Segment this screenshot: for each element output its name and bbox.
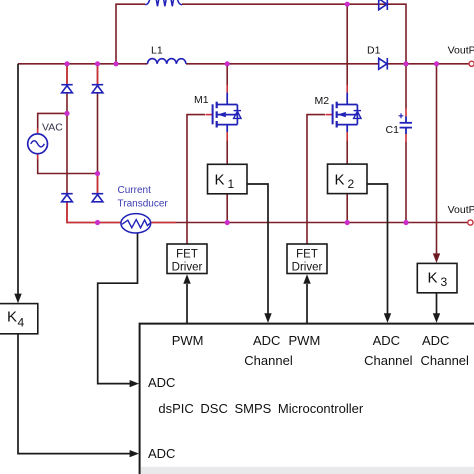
svg-text:VoutPFC-: VoutPFC- <box>448 204 474 216</box>
svg-text:M1: M1 <box>194 94 209 106</box>
svg-text:Current: Current <box>118 185 152 196</box>
svg-text:PWM: PWM <box>172 333 204 348</box>
svg-text:ADC: ADC <box>422 333 449 348</box>
svg-text:Driver: Driver <box>172 262 203 274</box>
svg-text:ADC: ADC <box>148 375 175 390</box>
svg-text:K: K <box>215 172 225 189</box>
svg-text:4: 4 <box>18 316 25 330</box>
svg-text:PWM: PWM <box>289 333 321 348</box>
svg-text:3: 3 <box>441 275 448 289</box>
svg-text:K: K <box>335 172 345 189</box>
svg-text:FET: FET <box>296 249 318 261</box>
svg-text:Driver: Driver <box>292 262 323 274</box>
svg-text:Channel: Channel <box>421 353 470 368</box>
svg-text:D1: D1 <box>367 45 381 57</box>
svg-text:2: 2 <box>348 177 355 191</box>
svg-text:dsPIC DSC SMPS Microcontroller: dsPIC DSC SMPS Microcontroller <box>158 401 363 416</box>
svg-text:VAC: VAC <box>42 121 63 133</box>
svg-text:K: K <box>428 270 438 287</box>
svg-text:Transducer: Transducer <box>118 198 169 209</box>
svg-text:VoutPFC+: VoutPFC+ <box>448 45 474 57</box>
svg-text:1: 1 <box>228 177 235 191</box>
svg-text:ADC: ADC <box>373 333 400 348</box>
svg-text:M2: M2 <box>315 95 330 107</box>
svg-text:C1: C1 <box>386 124 400 136</box>
svg-text:L1: L1 <box>151 45 163 57</box>
svg-text:FET: FET <box>176 249 198 261</box>
svg-text:ADC: ADC <box>253 333 280 348</box>
svg-text:Channel: Channel <box>364 353 413 368</box>
svg-text:K: K <box>7 309 17 326</box>
svg-text:ADC: ADC <box>148 446 175 461</box>
svg-text:Channel: Channel <box>244 353 293 368</box>
